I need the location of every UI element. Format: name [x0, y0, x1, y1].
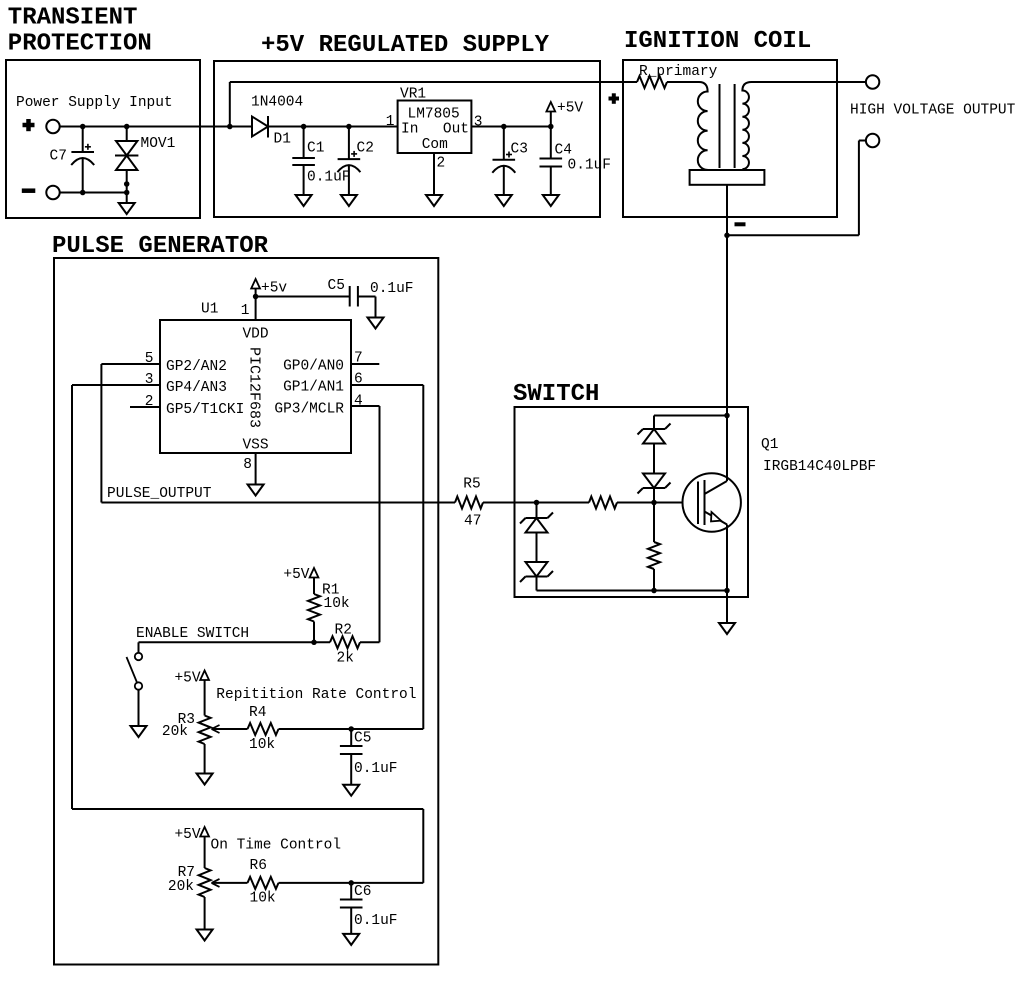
- plus polarity mark: [23, 123, 35, 128]
- svg-text:8: 8: [243, 457, 252, 473]
- svg-text:C5: C5: [354, 731, 371, 747]
- svg-text:20k: 20k: [162, 724, 188, 740]
- svg-text:Q1: Q1: [761, 437, 778, 453]
- svg-text:GP5/T1CKI: GP5/T1CKI: [166, 402, 244, 418]
- svg-text:10k: 10k: [249, 737, 275, 753]
- terminal + input: [46, 120, 59, 133]
- svg-text:1: 1: [241, 303, 250, 319]
- capacitor C1: [303, 127, 305, 159]
- switch SW1 enable: [138, 642, 140, 653]
- svg-text:TRANSIENT: TRANSIENT: [8, 5, 138, 32]
- ground SW1: [131, 726, 147, 737]
- wire C5 bypass to ground: [358, 296, 376, 298]
- svg-text:HIGH VOLTAGE OUTPUT: HIGH VOLTAGE OUTPUT: [850, 103, 1016, 119]
- wire VR1 pin2 to ground: [433, 153, 435, 195]
- wire pin3 GP4: [72, 384, 160, 386]
- zener D5 collector clamp lower: [643, 474, 665, 489]
- svg-text:C5: C5: [328, 278, 345, 294]
- svg-text:GP2/AN2: GP2/AN2: [166, 359, 227, 375]
- svg-text:20k: 20k: [168, 879, 194, 895]
- capacitor C5 bypass: [349, 286, 351, 307]
- svg-text:IRGB14C40LPBF: IRGB14C40LPBF: [763, 459, 876, 475]
- svg-text:+5V: +5V: [174, 827, 200, 843]
- svg-text:+5V: +5V: [283, 567, 309, 583]
- wire +5v to U1 pin1: [255, 289, 257, 321]
- svg-text:+5V REGULATED SUPPLY: +5V REGULATED SUPPLY: [261, 32, 550, 59]
- svg-text:Com: Com: [422, 137, 448, 153]
- resistor R6: [248, 877, 279, 889]
- ground U1 VSS: [248, 485, 264, 496]
- ground C3: [496, 195, 512, 206]
- wire collector clamp rail: [654, 415, 727, 417]
- svg-text:10k: 10k: [324, 596, 350, 612]
- wire R2 to pin4: [360, 641, 380, 643]
- transformer T1 secondary winding: [742, 82, 751, 169]
- supply block frame: [214, 61, 600, 217]
- wire Q1 emitter to ground: [726, 525, 728, 591]
- wire R_primary to primary winding: [667, 81, 699, 83]
- svg-text:C3: C3: [511, 142, 528, 158]
- wire pin8 VSS to ground: [255, 453, 257, 485]
- svg-text:ENABLE SWITCH: ENABLE SWITCH: [136, 626, 249, 642]
- wire pin4 GP3: [351, 405, 380, 407]
- wire secondary to HV terminal: [752, 81, 866, 83]
- terminal high voltage top: [866, 75, 879, 88]
- potentiometer R3: [204, 680, 206, 716]
- svg-text:C7: C7: [50, 149, 67, 165]
- svg-text:D1: D1: [274, 132, 291, 148]
- svg-text:LM7805: LM7805: [408, 107, 460, 123]
- svg-text:3: 3: [474, 115, 483, 131]
- svg-text:R2: R2: [335, 623, 352, 639]
- wire pin6 GP1: [351, 384, 423, 386]
- svg-text:VDD: VDD: [242, 327, 268, 343]
- svg-text:Power Supply Input: Power Supply Input: [16, 95, 173, 111]
- wire between collector clamp zeners: [653, 444, 655, 474]
- svg-text:0.1uF: 0.1uF: [354, 913, 398, 929]
- svg-text:PROTECTION: PROTECTION: [8, 31, 152, 58]
- node C7 top: [80, 124, 86, 130]
- capacitor C3: [503, 127, 505, 160]
- node R1 R2 junction: [311, 640, 317, 646]
- wire - rail: [60, 192, 127, 194]
- svg-text:+5V: +5V: [174, 671, 200, 687]
- svg-text:GP0/AN0: GP0/AN0: [283, 359, 344, 375]
- svg-text:MOV1: MOV1: [141, 136, 176, 152]
- resistor R1: [313, 578, 315, 595]
- wire R6 to on-time net: [279, 882, 424, 884]
- svg-text:PULSE_OUTPUT: PULSE_OUTPUT: [107, 486, 212, 502]
- transistor Q1 IGBT: [683, 473, 741, 531]
- wire coil to Q1 collector: [726, 235, 728, 481]
- wire pin3 jog to on-time net: [72, 808, 423, 810]
- wiper arrow R7: [213, 882, 248, 884]
- pulse generator block frame: [54, 258, 438, 965]
- svg-text:2k: 2k: [337, 651, 354, 667]
- node C2: [346, 124, 352, 130]
- wire pin2 stub: [130, 406, 160, 408]
- power +5V R7: [200, 827, 209, 837]
- wire input rail to coil: [229, 82, 231, 127]
- node C5 timing: [348, 726, 354, 732]
- svg-text:R5: R5: [463, 477, 480, 493]
- svg-text:1: 1: [386, 114, 395, 130]
- svg-text:GP1/AN1: GP1/AN1: [283, 380, 344, 396]
- svg-text:PULSE GENERATOR: PULSE GENERATOR: [52, 233, 269, 260]
- node U1 pin1: [253, 294, 259, 300]
- transformer T1 core: [719, 84, 721, 168]
- node C6: [348, 880, 354, 886]
- ground R7: [197, 930, 213, 941]
- wire gate series to gate node: [617, 502, 683, 504]
- svg-text:C4: C4: [555, 143, 572, 159]
- switch block frame: [515, 407, 749, 597]
- svg-text:R4: R4: [249, 705, 266, 721]
- svg-text:0.1uF: 0.1uF: [370, 281, 414, 297]
- wire coil common down: [726, 185, 728, 236]
- ground C6: [343, 934, 359, 945]
- svg-text:VR1: VR1: [400, 87, 426, 103]
- svg-text:In: In: [401, 122, 418, 138]
- svg-text:0.1uF: 0.1uF: [354, 761, 398, 777]
- plus mark coil: [609, 97, 620, 101]
- svg-text:C2: C2: [357, 141, 374, 157]
- transformer T1 primary winding: [698, 82, 708, 170]
- resistor R4: [248, 723, 279, 735]
- svg-text:R6: R6: [250, 858, 267, 874]
- node collector rail: [724, 413, 730, 419]
- wire coil common to HV return: [727, 234, 859, 236]
- capacitor C4: [550, 127, 552, 159]
- svg-text:2: 2: [437, 156, 446, 172]
- regulator VR1 box: [398, 101, 472, 154]
- svg-text:+5V: +5V: [557, 101, 583, 117]
- wire + rail: [60, 126, 252, 128]
- power +5V supply: [546, 102, 555, 112]
- zener D4 collector clamp upper: [653, 416, 655, 430]
- node C3: [501, 124, 507, 130]
- wire emitter ground rail: [537, 590, 728, 592]
- svg-text:0.1uF: 0.1uF: [307, 170, 351, 186]
- wiper arrow R3: [213, 728, 248, 730]
- capacitor C2: [348, 127, 350, 160]
- ground C5 bypass: [368, 318, 384, 329]
- wire PULSE_OUTPUT net: [101, 502, 455, 504]
- wire VR1 out rail: [471, 126, 550, 128]
- diode D1: [252, 117, 268, 137]
- zener D2 input clamp upper: [536, 503, 538, 519]
- svg-text:+5v: +5v: [261, 281, 287, 297]
- minus polarity mark: [22, 188, 36, 193]
- ground VR1: [426, 195, 442, 206]
- ground C1: [296, 195, 312, 206]
- wire D1 to VR1 pin1: [268, 126, 398, 128]
- svg-text:Repitition Rate Control: Repitition Rate Control: [216, 687, 416, 703]
- node MOV1 top: [124, 124, 130, 130]
- resistor gate pulldown: [653, 503, 655, 543]
- resistor R_primary: [637, 76, 667, 88]
- svg-text:PIC12F683: PIC12F683: [246, 347, 263, 428]
- node C1: [301, 124, 307, 130]
- wire enable switch net: [139, 641, 331, 643]
- capacitor C5 timing: [350, 729, 352, 746]
- resistor R5: [455, 497, 483, 509]
- wire R4 to pin6 net: [279, 728, 424, 730]
- svg-text:4: 4: [354, 394, 363, 410]
- power +5V R1: [310, 568, 319, 578]
- node pulldown ground: [651, 588, 657, 594]
- transient protection block frame: [6, 60, 200, 218]
- svg-text:SWITCH: SWITCH: [513, 381, 599, 408]
- svg-text:GP4/AN3: GP4/AN3: [166, 380, 227, 396]
- minus mark coil: [735, 222, 746, 226]
- ic U1 box: [160, 320, 351, 453]
- potentiometer R7: [204, 837, 206, 869]
- svg-text:1N4004: 1N4004: [251, 95, 303, 111]
- wire between input clamp zeners: [536, 533, 538, 563]
- svg-text:C6: C6: [354, 884, 371, 900]
- svg-text:10k: 10k: [250, 891, 276, 907]
- resistor R2: [330, 636, 360, 648]
- ignition coil block frame: [623, 60, 837, 217]
- ground MOV1: [119, 203, 135, 214]
- svg-text:Out: Out: [443, 122, 469, 138]
- svg-text:GP3/MCLR: GP3/MCLR: [274, 402, 344, 418]
- terminal - input: [46, 186, 59, 199]
- svg-text:On Time Control: On Time Control: [211, 838, 342, 854]
- svg-text:R_primary: R_primary: [639, 64, 718, 80]
- wire to capacitor C5 bypass: [256, 296, 350, 298]
- svg-text:47: 47: [464, 514, 481, 530]
- svg-text:U1: U1: [201, 302, 218, 318]
- wire R5 to clamp node: [483, 502, 537, 504]
- wire pin5 GP2 to pulse output: [101, 363, 160, 365]
- resistor gate series: [537, 502, 590, 504]
- wire pin7 stub: [351, 363, 379, 365]
- node C7 bottom: [80, 190, 86, 196]
- node emitter ground: [724, 588, 730, 594]
- ground Q1 emitter: [719, 623, 735, 634]
- node gate: [651, 500, 657, 506]
- ground C2: [341, 195, 357, 206]
- svg-text:C1: C1: [307, 141, 324, 157]
- node MOV1 bottom: [124, 181, 130, 187]
- terminal high voltage bottom: [866, 134, 879, 147]
- svg-text:IGNITION COIL: IGNITION COIL: [624, 28, 811, 55]
- transformer T1 common terminal bar: [690, 170, 765, 185]
- ground C5 timing: [343, 785, 359, 796]
- power +5v U1: [251, 279, 260, 289]
- node C4 +5V: [548, 124, 554, 130]
- ground C4: [543, 195, 559, 206]
- svg-text:VSS: VSS: [242, 438, 268, 454]
- node input clamp: [534, 500, 540, 506]
- svg-text:0.1uF: 0.1uF: [568, 158, 612, 174]
- varistor MOV1: [126, 127, 128, 142]
- node input rail tap: [227, 124, 233, 130]
- zener D3 input clamp lower: [526, 562, 548, 577]
- power +5V R3: [200, 671, 209, 681]
- ground R3: [197, 774, 213, 785]
- node coil common: [724, 233, 730, 239]
- capacitor C7: [82, 127, 84, 153]
- capacitor C6: [350, 883, 352, 900]
